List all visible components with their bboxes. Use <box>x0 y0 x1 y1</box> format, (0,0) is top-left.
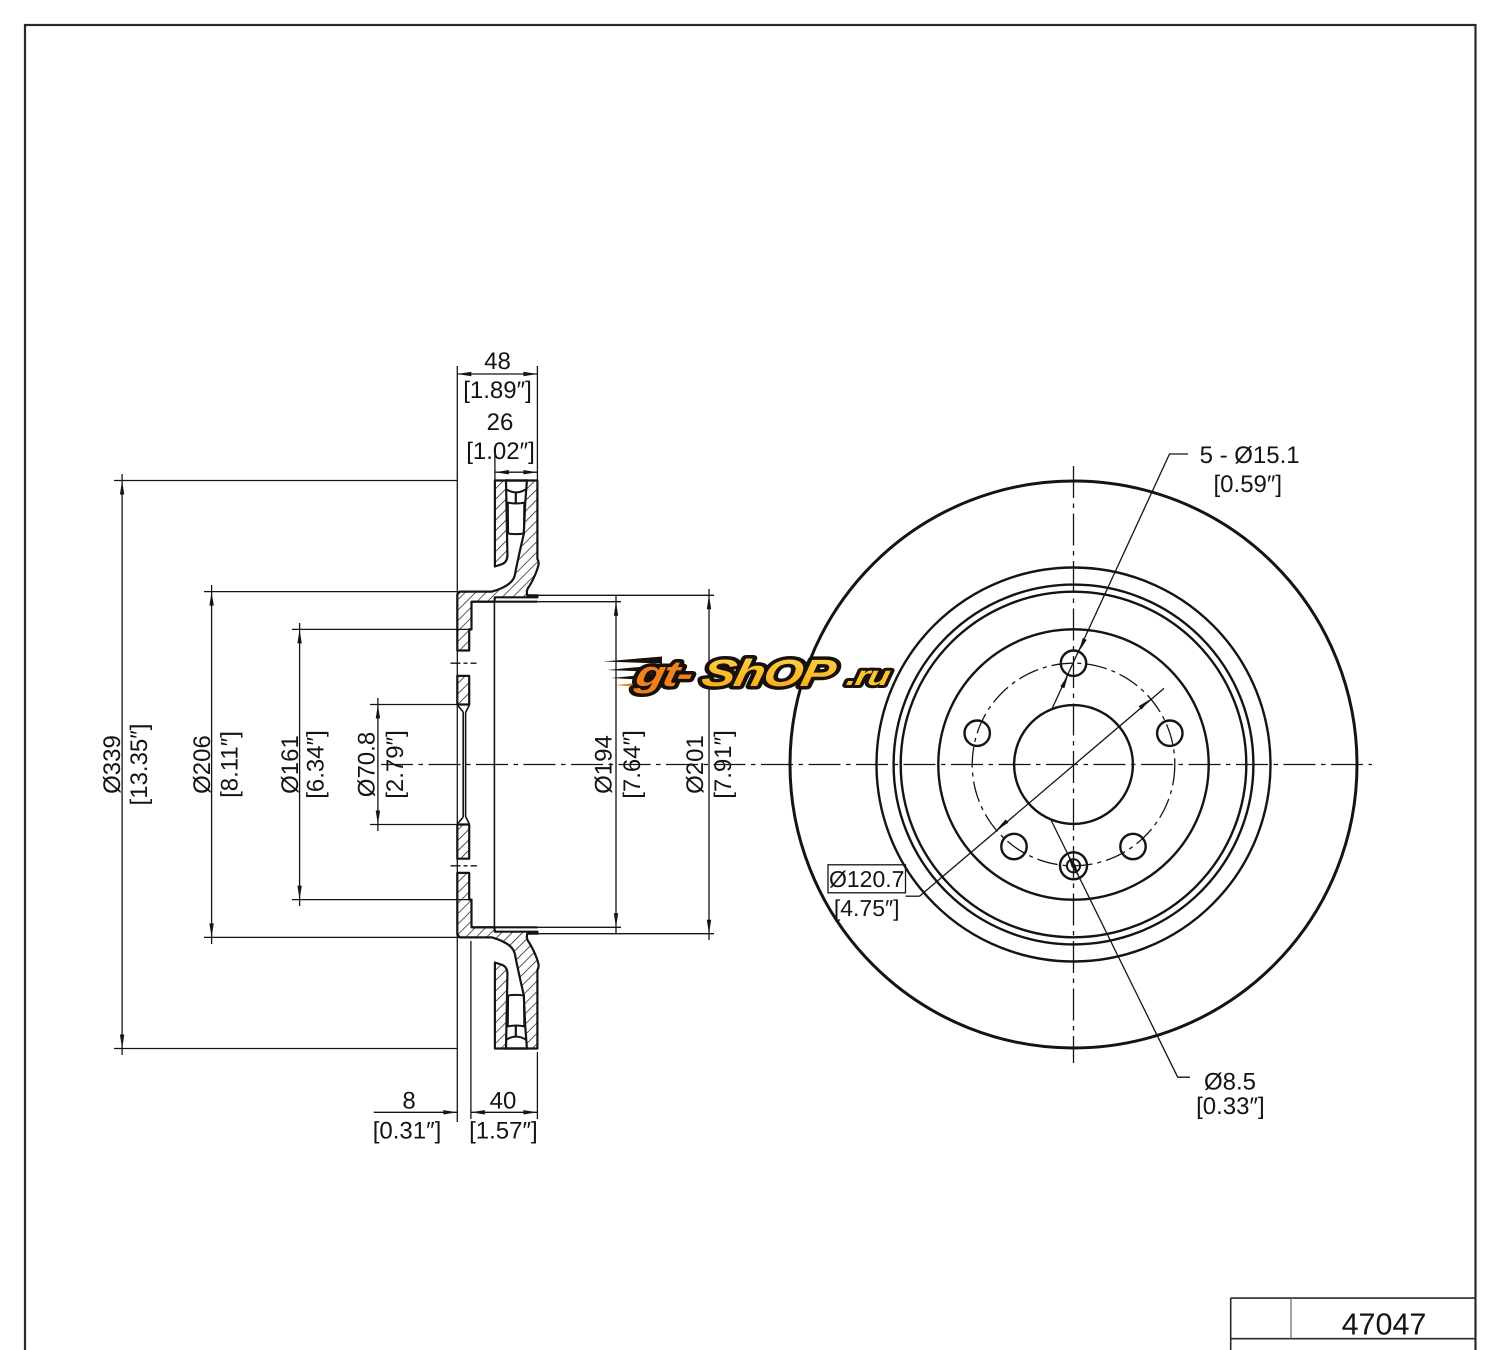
svg-text:Ø8.5: Ø8.5 <box>1204 1069 1256 1096</box>
braking band inner edge circle <box>877 568 1271 962</box>
dimension Ø161 extension lines <box>292 628 469 630</box>
set screw hole Ø8.5 (bottom) <box>1060 852 1087 879</box>
vane foot edge (bottom rim) <box>506 1037 526 1040</box>
svg-text:.ru: .ru <box>844 661 894 691</box>
dimension Ø161 line and arrows <box>299 623 301 906</box>
vane body outline (top rim) <box>507 502 526 503</box>
rim right bar + transition funnel + drum wall + flange lower (hatched section profile, bottom) <box>457 873 538 1049</box>
svg-text:Ø194: Ø194 <box>591 735 618 794</box>
pilot bore chamfer edges <box>458 705 464 712</box>
svg-text:[1.89″]: [1.89″] <box>463 377 532 404</box>
rim right bar + transition funnel + drum wall + flange upper (hatched section profile, top) <box>457 481 538 651</box>
hat transition edge circle <box>894 585 1254 945</box>
leader line for 5-Ø15.1 bolt holes <box>1052 454 1188 710</box>
dimension Ø339 extension lines <box>114 480 457 482</box>
rim left bar (bottom, hatched) <box>495 963 508 1049</box>
drum inner surface groove line (bottom, diameter 194) <box>472 926 538 928</box>
wheel bolt hole Ø15.1 (upper left) <box>965 721 990 746</box>
mounting pad circle Ø161 <box>938 629 1208 899</box>
drum inner surface groove line (top, diameter 194) <box>472 601 538 603</box>
dimension Ø201 extension lines <box>537 594 714 596</box>
40 dimension extension line <box>536 1052 538 1119</box>
wheel bolt hole Ø15.1 (top) <box>1061 651 1086 676</box>
svg-text:[7.91″]: [7.91″] <box>710 730 737 799</box>
svg-text:[0.31″]: [0.31″] <box>373 1118 442 1145</box>
section & right-view horizontal centerline <box>381 764 1372 766</box>
svg-text:Ø339: Ø339 <box>99 735 126 794</box>
svg-text:Ø120.7: Ø120.7 <box>829 866 904 892</box>
vane stem (bottom rim) <box>515 1026 517 1037</box>
8 dimension line and arrow <box>374 1111 458 1113</box>
svg-text:Ø161: Ø161 <box>277 735 304 794</box>
svg-text:Ø70.8: Ø70.8 <box>354 732 381 797</box>
wheel bolt hole Ø15.1 (lower left) <box>1001 834 1026 859</box>
set-screw hole axis mark (section) <box>451 865 478 867</box>
dimension Ø70.8 line and arrows <box>377 698 379 831</box>
svg-text:40: 40 <box>490 1088 517 1115</box>
dimension Ø206 line and arrows <box>211 585 213 944</box>
svg-text:48: 48 <box>484 348 511 375</box>
svg-text:[13.35″]: [13.35″] <box>126 724 153 806</box>
wheel-bolt hole axis mark (section) <box>451 662 477 664</box>
48 dimension line and arrows <box>457 373 537 375</box>
vane body outline (bottom rim) <box>507 1025 526 1026</box>
26 dimension extension line <box>494 448 496 481</box>
svg-text:[1.02″]: [1.02″] <box>466 438 535 465</box>
hub pilot bore circle Ø70.8 <box>1014 705 1133 824</box>
vane stem (top rim) <box>515 492 517 503</box>
svg-text:[0.59″]: [0.59″] <box>1214 471 1283 498</box>
dimension Ø339 line and arrows <box>121 474 123 1055</box>
wheel bolt hole Ø15.1 (upper right) <box>1157 721 1182 746</box>
svg-text:[4.75″]: [4.75″] <box>834 895 900 921</box>
flange segment between pilot bore and set-screw hole (hatched) <box>457 825 469 859</box>
rim outer surface edge across vent (bottom) <box>505 1047 528 1049</box>
svg-text:gt-: gt- <box>631 653 696 694</box>
rim outer surface edge across vent (top) <box>505 479 528 481</box>
svg-text:5 - Ø15.1: 5 - Ø15.1 <box>1200 442 1300 469</box>
48 dimension extension lines <box>456 366 458 1122</box>
svg-text:[1.57″]: [1.57″] <box>469 1118 538 1145</box>
outer circle Ø339 <box>790 481 1357 1048</box>
svg-text:Ø206: Ø206 <box>189 735 216 794</box>
svg-text:ShOP: ShOP <box>698 653 840 695</box>
wheel bolt hole Ø15.1 (lower right) <box>1120 834 1145 859</box>
dimension line Ø120.7 across bolt circle <box>906 895 920 897</box>
svg-text:8: 8 <box>402 1088 415 1115</box>
dimension Ø194 extension lines <box>537 601 621 603</box>
bolt circle Ø120.7 (dash-dot) <box>972 663 1175 866</box>
dimension Ø70.8 extension lines <box>370 704 457 706</box>
svg-text:[0.33″]: [0.33″] <box>1196 1093 1265 1120</box>
rim left bar (top, hatched) <box>495 481 508 567</box>
vane foot edge (top rim) <box>506 489 526 492</box>
svg-text:Ø201: Ø201 <box>682 735 709 794</box>
drum outer circle Ø206 <box>901 592 1247 938</box>
svg-text:[8.11″]: [8.11″] <box>217 731 244 798</box>
right view vertical centerline <box>1073 466 1075 1063</box>
dimension Ø206 extension lines <box>204 591 459 593</box>
dimension Ø201 line and arrows <box>708 589 710 940</box>
26 dimension line and arrows <box>495 471 538 473</box>
svg-text:[7.64″]: [7.64″] <box>619 730 646 799</box>
svg-text:[2.79″]: [2.79″] <box>382 730 409 799</box>
title block box <box>1231 1297 1476 1299</box>
svg-text:26: 26 <box>487 409 514 436</box>
gt-shop.ru watermark logo <box>603 653 896 695</box>
svg-text:47047: 47047 <box>1342 1308 1427 1342</box>
drum closed-end visible edge <box>493 602 495 928</box>
40 dimension line and arrows <box>471 1111 538 1113</box>
svg-text:[6.34″]: [6.34″] <box>303 730 330 799</box>
8 dimension extension line <box>470 941 472 1119</box>
flange segment between wheel-bolt hole and pilot bore (hatched) <box>457 676 469 705</box>
label Ø120.7 with frame box <box>828 865 906 893</box>
leader line for Ø8.5 set screw hole <box>1051 819 1191 1077</box>
dimension Ø194 line and arrows <box>615 595 617 934</box>
